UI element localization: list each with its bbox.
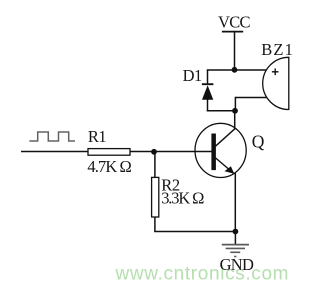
svg-text:GND: GND <box>220 255 254 274</box>
wire bottom rail <box>154 231 235 233</box>
node collector dot <box>232 108 238 114</box>
diode D1 triangle <box>202 85 213 100</box>
wire ground stem <box>234 232 236 245</box>
wire D1 bottom vertical <box>207 99 209 111</box>
emitter arrowhead <box>225 166 235 174</box>
wire buzzer bottom lead <box>235 97 267 99</box>
node VCC dot <box>232 67 238 73</box>
wire buzzer top lead <box>235 69 267 71</box>
wire D1 top horizontal <box>207 69 235 71</box>
svg-text:Q: Q <box>252 131 265 151</box>
svg-text:4.7K Ω: 4.7K Ω <box>87 157 131 176</box>
wire R1 to transistor base <box>130 151 212 153</box>
wire D1 bottom horizontal <box>207 110 235 112</box>
square wave input symbol <box>29 132 75 141</box>
buzzer BZ1 body <box>263 57 289 109</box>
transistor Q circle <box>195 123 246 177</box>
VCC terminal bar <box>222 31 243 33</box>
transistor collector diagonal <box>216 129 235 146</box>
wire junction to R2 <box>154 152 156 178</box>
wire emitter down to rail <box>234 173 236 232</box>
wire D1 top vertical <box>207 70 209 84</box>
svg-text:R1: R1 <box>88 127 107 146</box>
buzzer plus sign <box>272 71 279 73</box>
transistor emitter diagonal <box>216 158 235 174</box>
resistor R2 <box>152 177 159 217</box>
transistor base bar <box>211 134 216 171</box>
wire collector up to node <box>234 111 236 130</box>
ground symbol bars <box>222 244 249 246</box>
svg-text:BZ1: BZ1 <box>261 40 294 59</box>
node junction dot emitter/ground <box>233 229 239 235</box>
svg-text:3.3K Ω: 3.3K Ω <box>161 189 204 208</box>
wire input to R1 <box>21 151 88 153</box>
diode D1 cathode bar <box>202 83 214 85</box>
node junction dot base <box>151 149 157 155</box>
resistor R1 <box>88 149 130 156</box>
wire VCC down <box>234 32 236 70</box>
svg-text:D1: D1 <box>183 66 202 85</box>
wire R2 to bottom rail <box>154 217 156 232</box>
svg-text:www.cntronics.com: www.cntronics.com <box>115 264 290 285</box>
svg-text:VCC: VCC <box>218 12 251 31</box>
wire buzzer bottom jog <box>234 97 236 111</box>
